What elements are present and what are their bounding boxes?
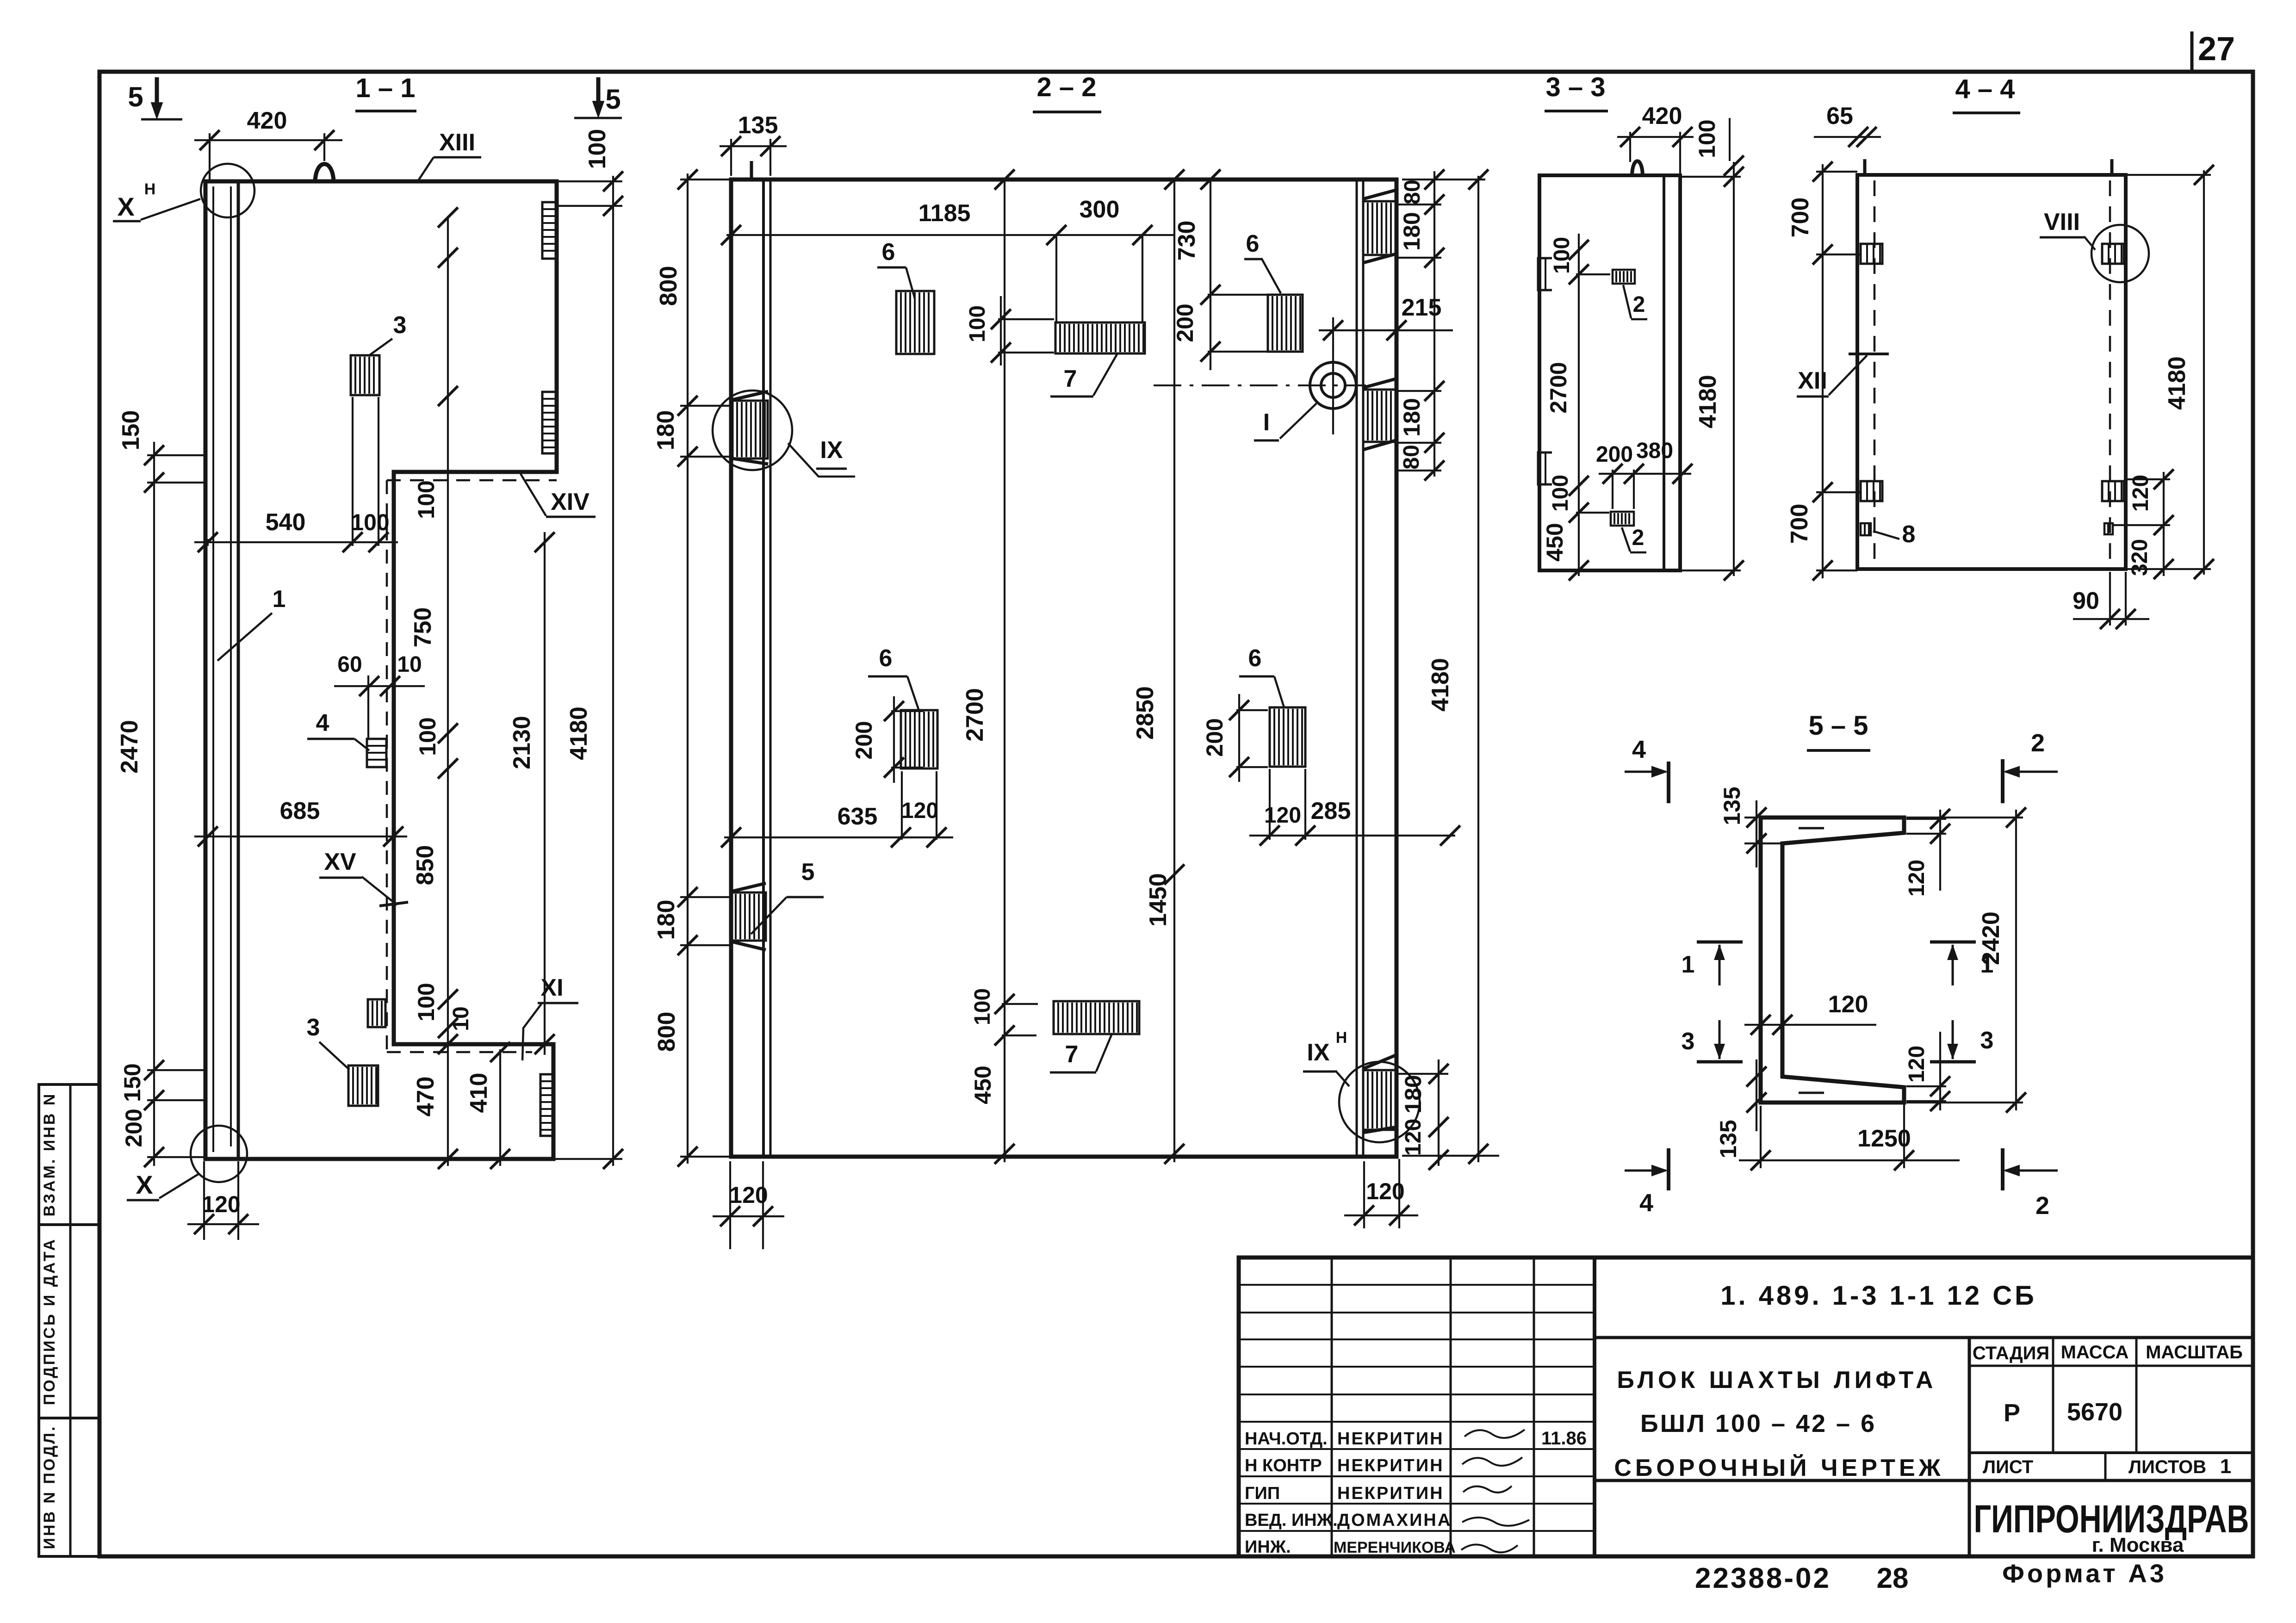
dim chain small right top 80 180 180 80 bbox=[1433, 171, 1435, 477]
dim 4180 right of 2-2 bbox=[1402, 179, 1485, 180]
svg-text:120: 120 bbox=[1828, 991, 1868, 1018]
svg-text:3 – 3: 3 – 3 bbox=[1546, 72, 1606, 102]
svg-text:IX: IX bbox=[820, 437, 843, 464]
svg-text:135: 135 bbox=[1715, 1120, 1741, 1158]
svg-text:100: 100 bbox=[351, 509, 389, 535]
svg-text:380: 380 bbox=[1636, 439, 1673, 463]
svg-text:100: 100 bbox=[965, 305, 990, 342]
svg-text:2700: 2700 bbox=[962, 688, 988, 742]
dim 4180 right 4-4 bbox=[2126, 174, 2211, 176]
svg-text:120: 120 bbox=[1366, 1178, 1404, 1204]
svg-text:Н: Н bbox=[1336, 1029, 1347, 1047]
svg-text:135: 135 bbox=[738, 112, 778, 139]
embedded plate small near step bbox=[368, 999, 385, 1027]
dim 200 and 380 3-3 bbox=[1599, 473, 1691, 475]
svg-text:4180: 4180 bbox=[1694, 375, 1721, 428]
svg-text:ДОМАХИНА: ДОМАХИНА bbox=[1337, 1511, 1452, 1530]
dim line 2850 1450 bbox=[1173, 180, 1175, 1162]
svg-text:800: 800 bbox=[653, 1012, 680, 1052]
dim 4180 right of 1-1 bbox=[557, 180, 622, 182]
svg-text:НЕКРИТИН: НЕКРИТИН bbox=[1337, 1484, 1444, 1503]
svg-text:4: 4 bbox=[1632, 736, 1646, 763]
svg-text:МАСШТАБ: МАСШТАБ bbox=[2146, 1342, 2243, 1363]
svg-text:4180: 4180 bbox=[1427, 658, 1454, 712]
embedded plate right edge above step XIV bbox=[542, 392, 557, 453]
dim 90 bottom 4-4 bbox=[2109, 572, 2111, 626]
svg-text:80: 80 bbox=[1399, 445, 1424, 469]
dim 65 top 4-4 bbox=[1814, 136, 1881, 138]
detail circle IX-N bbox=[1339, 1062, 1420, 1142]
svg-text:7: 7 bbox=[1065, 1041, 1079, 1068]
svg-text:1 – 1: 1 – 1 bbox=[356, 73, 416, 103]
dim 135 top left 5-5 bbox=[1756, 800, 1757, 867]
embedded plate 3 upper bbox=[351, 355, 379, 395]
svg-text:2: 2 bbox=[1632, 526, 1644, 550]
dim chain 730 200 bbox=[1210, 180, 1211, 370]
svg-text:180: 180 bbox=[653, 900, 680, 940]
svg-text:200: 200 bbox=[121, 1109, 147, 1147]
svg-text:27: 27 bbox=[2198, 31, 2235, 68]
svg-text:ГИП: ГИП bbox=[1245, 1484, 1280, 1503]
svg-text:ВЕД. ИНЖ.: ВЕД. ИНЖ. bbox=[1245, 1511, 1338, 1530]
rebar line right bbox=[230, 186, 232, 1146]
svg-text:120: 120 bbox=[2128, 475, 2153, 512]
dim 120 bottom left strip bbox=[729, 1161, 731, 1249]
embedded plate 3 lower bbox=[348, 1065, 378, 1106]
svg-text:6: 6 bbox=[1246, 230, 1260, 257]
svg-text:180: 180 bbox=[652, 410, 679, 451]
dim line 2700 100 450 bbox=[1004, 180, 1005, 1162]
svg-text:1450: 1450 bbox=[1145, 873, 1172, 927]
svg-text:685: 685 bbox=[280, 798, 320, 824]
embedded plate 4 bbox=[367, 739, 386, 767]
svg-text:1: 1 bbox=[1682, 951, 1695, 978]
svg-text:850: 850 bbox=[412, 845, 439, 886]
section 5-5 channel outline bbox=[1761, 818, 1904, 1103]
svg-text:750: 750 bbox=[410, 607, 436, 648]
svg-text:150: 150 bbox=[119, 1063, 145, 1102]
flange inner marks bbox=[1799, 827, 1824, 830]
hidden edge dashed bottom bbox=[387, 1051, 532, 1053]
hidden edge dashed vertical bbox=[386, 480, 388, 1052]
svg-text:700: 700 bbox=[1787, 198, 1814, 238]
svg-text:5: 5 bbox=[801, 859, 815, 886]
svg-text:ЛИСТ: ЛИСТ bbox=[1983, 1457, 2033, 1477]
dim 135 top left bbox=[730, 139, 732, 176]
svg-text:120: 120 bbox=[1905, 1046, 1929, 1083]
svg-text:700: 700 bbox=[1786, 504, 1813, 544]
dim chain left of 2-2 bbox=[687, 173, 689, 1164]
detail circle VIII bbox=[2091, 225, 2149, 282]
datum target circle I bbox=[1310, 362, 1356, 409]
svg-text:120: 120 bbox=[1264, 803, 1301, 828]
svg-text:1. 489. 1-3 1-1 12 СБ: 1. 489. 1-3 1-1 12 СБ bbox=[1720, 1281, 2037, 1311]
svg-text:ПОДПИСЬ И ДАТА: ПОДПИСЬ И ДАТА bbox=[41, 1238, 58, 1405]
svg-text:4: 4 bbox=[1639, 1189, 1653, 1217]
plate left top 4-4 bbox=[1861, 244, 1882, 264]
svg-text:22388-02: 22388-02 bbox=[1695, 1562, 1831, 1594]
hidden lines 4-4 bbox=[1874, 180, 1876, 565]
svg-text:120: 120 bbox=[1401, 1119, 1426, 1156]
svg-text:VIII: VIII bbox=[2044, 209, 2080, 235]
inner face line 3-3 bbox=[1663, 175, 1665, 570]
svg-text:Р: Р bbox=[2004, 1399, 2020, 1427]
dim 120 320 right 4-4 bbox=[2163, 472, 2165, 576]
page number 27 bbox=[2191, 31, 2194, 71]
title block left table row lines bbox=[1239, 1284, 1595, 1286]
svg-text:180: 180 bbox=[1400, 1075, 1426, 1113]
svg-text:НЕКРИТИН: НЕКРИТИН bbox=[1337, 1456, 1444, 1475]
svg-text:1250: 1250 bbox=[1857, 1125, 1911, 1152]
svg-text:4 – 4: 4 – 4 bbox=[1955, 74, 2015, 104]
svg-text:X: X bbox=[136, 1170, 153, 1199]
svg-text:730: 730 bbox=[1173, 221, 1200, 261]
svg-text:200: 200 bbox=[1172, 304, 1198, 342]
plate 8 left 4-4 bbox=[1861, 523, 1871, 535]
svg-text:XV: XV bbox=[324, 849, 356, 875]
svg-text:ИНЖ.: ИНЖ. bbox=[1245, 1537, 1291, 1557]
section 1-1 panel outline bbox=[205, 181, 557, 1159]
svg-text:5: 5 bbox=[605, 84, 621, 115]
dim 420 top bbox=[209, 133, 211, 180]
title block main horizontal lines bbox=[1595, 1336, 2253, 1339]
svg-text:100: 100 bbox=[413, 480, 439, 519]
svg-text:г. Москва: г. Москва bbox=[2092, 1534, 2184, 1556]
embedded plate 6b bbox=[1268, 295, 1303, 352]
svg-text:410: 410 bbox=[465, 1073, 492, 1113]
svg-text:215: 215 bbox=[1402, 294, 1442, 321]
embedded plate 7b bbox=[1054, 1001, 1139, 1034]
detail circle IX bbox=[713, 390, 792, 470]
dim 4180 right 3-3 bbox=[1680, 176, 1741, 178]
dim 410 line bbox=[499, 1049, 501, 1166]
left strip inner lines bbox=[762, 180, 765, 1157]
embedded plate top of right strip bbox=[1363, 201, 1396, 255]
svg-text:540: 540 bbox=[266, 509, 306, 536]
svg-text:60: 60 bbox=[337, 652, 362, 677]
svg-text:200: 200 bbox=[1596, 442, 1633, 467]
svg-text:100: 100 bbox=[1550, 237, 1574, 274]
dim 120 web 5-5 bbox=[1744, 1024, 1876, 1026]
svg-text:6: 6 bbox=[879, 645, 893, 672]
svg-text:СТАДИЯ: СТАДИЯ bbox=[1973, 1343, 2049, 1363]
lifting hook 3-3 bbox=[1632, 161, 1643, 175]
section 2-2 outline bbox=[731, 180, 1396, 1157]
title block outer border bbox=[1239, 1258, 2253, 1556]
svg-text:МЕРЕНЧИКОВА: МЕРЕНЧИКОВА bbox=[1334, 1539, 1456, 1556]
section 4-4 outline bbox=[1857, 175, 2126, 569]
dim 180 120 at IX-N bbox=[1438, 1059, 1440, 1166]
dim 540 and 100 bbox=[207, 539, 209, 546]
svg-text:320: 320 bbox=[2128, 539, 2152, 576]
svg-text:2130: 2130 bbox=[509, 716, 535, 769]
dim 200 near 6c bbox=[893, 696, 895, 783]
svg-text:6: 6 bbox=[882, 239, 895, 266]
svg-text:80: 80 bbox=[1400, 180, 1425, 204]
svg-text:Н: Н bbox=[144, 180, 156, 198]
plate right top 4-4 in circle VIII bbox=[2102, 244, 2124, 264]
svg-text:Формат А3: Формат А3 bbox=[2002, 1559, 2167, 1588]
svg-text:100: 100 bbox=[1694, 119, 1720, 158]
svg-text:100: 100 bbox=[970, 988, 995, 1025]
margin box PODPIS I DATA bbox=[39, 1225, 99, 1418]
svg-text:Н КОНТР: Н КОНТР bbox=[1245, 1456, 1322, 1475]
section 3-3 outline bbox=[1539, 175, 1680, 570]
dim 120 top right 5-5 bbox=[1939, 810, 1941, 891]
dim 2420 right 5-5 bbox=[1906, 817, 2023, 818]
svg-text:1185: 1185 bbox=[918, 200, 971, 227]
svg-text:ЛИСТОВ: ЛИСТОВ bbox=[2128, 1457, 2206, 1477]
svg-text:100: 100 bbox=[415, 717, 441, 756]
plate left mid 4-4 bbox=[1861, 481, 1882, 501]
svg-text:4180: 4180 bbox=[565, 706, 592, 760]
svg-text:200: 200 bbox=[851, 721, 877, 759]
dim 635 and 120 bbox=[901, 771, 903, 840]
margin box INV N PODL bbox=[39, 1418, 99, 1556]
svg-text:3: 3 bbox=[307, 1014, 320, 1041]
signature squiggles bbox=[1464, 1430, 1525, 1438]
dim 120 bottom right strip bbox=[1363, 1161, 1365, 1228]
dim 215 bbox=[1319, 329, 1453, 331]
svg-text:135: 135 bbox=[1719, 787, 1745, 825]
svg-text:1: 1 bbox=[2220, 1455, 2231, 1478]
embedded plate 6a bbox=[896, 291, 934, 354]
dim chain left 3-3 bbox=[1578, 234, 1580, 576]
plate 2 lower bbox=[1611, 512, 1634, 526]
svg-text:180: 180 bbox=[1399, 398, 1425, 436]
svg-text:420: 420 bbox=[247, 107, 287, 134]
svg-text:2420: 2420 bbox=[1978, 911, 2004, 965]
svg-text:2: 2 bbox=[2031, 729, 2045, 757]
svg-text:X: X bbox=[117, 192, 134, 221]
svg-text:БШЛ 100 – 42 – 6: БШЛ 100 – 42 – 6 bbox=[1640, 1410, 1876, 1437]
dim chain left 4-4 700 700 bbox=[1822, 164, 1824, 578]
embedded plate IX-N bottom right strip bbox=[1363, 1070, 1396, 1130]
svg-text:800: 800 bbox=[655, 266, 682, 306]
svg-text:XIV: XIV bbox=[551, 489, 590, 515]
svg-text:120: 120 bbox=[1905, 860, 1929, 897]
lifting hook bbox=[315, 164, 334, 182]
svg-text:5 – 5: 5 – 5 bbox=[1809, 711, 1868, 741]
svg-text:2850: 2850 bbox=[1132, 686, 1159, 740]
svg-text:100: 100 bbox=[1548, 475, 1573, 512]
dim 200 near 6d bbox=[1238, 694, 1240, 782]
svg-text:10: 10 bbox=[397, 652, 422, 677]
svg-text:5670: 5670 bbox=[2067, 1398, 2122, 1426]
section 1-1 inner face line bbox=[237, 181, 240, 1159]
bracket bottom left edge bbox=[1538, 452, 1552, 484]
svg-text:3: 3 bbox=[1980, 1027, 1994, 1054]
svg-text:100: 100 bbox=[584, 129, 611, 169]
embedded plate 6c bbox=[901, 710, 937, 768]
plate right small 4-4 bbox=[2104, 523, 2113, 534]
svg-text:МАССА: МАССА bbox=[2061, 1342, 2129, 1363]
dim 100 near 7a bbox=[1000, 296, 1002, 365]
svg-text:180: 180 bbox=[1399, 212, 1425, 250]
plate right mid 4-4 bbox=[2102, 481, 2124, 501]
svg-text:СБОРОЧНЫЙ ЧЕРТЕЖ: СБОРОЧНЫЙ ЧЕРТЕЖ bbox=[1614, 1454, 1944, 1481]
svg-text:4180: 4180 bbox=[2164, 356, 2191, 410]
svg-text:XIII: XIII bbox=[439, 129, 475, 156]
right strip inner lines bbox=[1356, 180, 1358, 1157]
dim 120 bottom of 1-1 bbox=[203, 1161, 205, 1240]
svg-text:120: 120 bbox=[901, 799, 938, 823]
svg-text:I: I bbox=[1263, 409, 1270, 436]
svg-text:НЕКРИТИН: НЕКРИТИН bbox=[1337, 1429, 1444, 1449]
svg-text:2: 2 bbox=[2035, 1192, 2049, 1220]
svg-text:3: 3 bbox=[393, 312, 407, 339]
dim 1250 bottom 5-5 bbox=[1760, 1106, 1762, 1168]
svg-text:БЛОК ШАХТЫ ЛИФТА: БЛОК ШАХТЫ ЛИФТА bbox=[1617, 1367, 1936, 1394]
dim 1185 and 300 bbox=[1055, 235, 1057, 322]
rebar line left bbox=[212, 186, 214, 1152]
embedded plate top right edge bbox=[542, 202, 557, 259]
svg-text:5: 5 bbox=[128, 81, 143, 112]
svg-text:2700: 2700 bbox=[1545, 362, 1571, 413]
hook pins 4-4 bbox=[1863, 159, 1867, 175]
svg-text:450: 450 bbox=[1542, 523, 1568, 561]
embedded plate XI bottom right bbox=[540, 1074, 552, 1136]
bracket top left edge bbox=[1538, 258, 1552, 290]
dim 120 and 285 near 6d bbox=[1269, 769, 1271, 840]
margin box VZAM INV N bbox=[39, 1084, 99, 1225]
dim chain left of 1-1 line bbox=[153, 442, 155, 1166]
svg-text:120: 120 bbox=[729, 1182, 768, 1208]
svg-text:1: 1 bbox=[273, 586, 286, 613]
title block left table column lines bbox=[1331, 1258, 1333, 1556]
svg-text:6: 6 bbox=[1248, 645, 1262, 672]
svg-text:90: 90 bbox=[2073, 588, 2099, 614]
dim 120 bottom right 5-5 bbox=[1939, 1032, 1941, 1110]
title block main vertical lines bbox=[1968, 1338, 1971, 1556]
svg-text:8: 8 bbox=[1902, 521, 1916, 548]
svg-text:7: 7 bbox=[1064, 365, 1077, 392]
svg-text:2470: 2470 bbox=[116, 720, 143, 774]
dim 2130 line bbox=[544, 532, 546, 1055]
svg-text:100: 100 bbox=[413, 983, 439, 1021]
svg-text:120: 120 bbox=[202, 1191, 240, 1217]
embedded plate 6d bbox=[1270, 707, 1305, 767]
dim 60 and 10 bbox=[334, 685, 425, 687]
svg-text:65: 65 bbox=[1826, 103, 1853, 130]
svg-text:450: 450 bbox=[970, 1065, 996, 1104]
dim chain middle 1-1 bbox=[447, 217, 449, 1166]
left strip hook pin bbox=[750, 161, 753, 180]
svg-text:4: 4 bbox=[316, 710, 329, 737]
embedded plate 5 in left strip bbox=[731, 892, 766, 941]
svg-text:300: 300 bbox=[1080, 196, 1120, 223]
svg-text:28: 28 bbox=[1877, 1562, 1909, 1594]
svg-text:150: 150 bbox=[118, 410, 144, 451]
svg-text:11.86: 11.86 bbox=[1541, 1428, 1587, 1449]
svg-text:635: 635 bbox=[838, 803, 878, 830]
svg-text:НАЧ.ОТД.: НАЧ.ОТД. bbox=[1245, 1429, 1328, 1449]
svg-text:ВЗАМ. ИНВ N: ВЗАМ. ИНВ N bbox=[41, 1092, 58, 1217]
svg-text:200: 200 bbox=[1202, 718, 1228, 756]
plate 2 upper bbox=[1613, 270, 1635, 284]
svg-text:470: 470 bbox=[412, 1077, 439, 1117]
embedded plate mid of right strip bbox=[1363, 390, 1396, 442]
svg-text:2: 2 bbox=[1633, 292, 1645, 317]
svg-text:3: 3 bbox=[1682, 1028, 1695, 1055]
dim 420 top 3-3 bbox=[1629, 132, 1631, 162]
svg-text:ИНВ N ПОДЛ.: ИНВ N ПОДЛ. bbox=[41, 1425, 58, 1549]
dim 135 bottom left 5-5 bbox=[1756, 1059, 1757, 1131]
dim 685 bbox=[194, 836, 407, 837]
embedded plate IX in left strip bbox=[732, 401, 768, 458]
svg-text:IX: IX bbox=[1307, 1039, 1329, 1066]
svg-text:2 – 2: 2 – 2 bbox=[1037, 72, 1097, 102]
hidden edge dashed top bbox=[387, 479, 557, 482]
svg-text:10: 10 bbox=[449, 1006, 473, 1031]
svg-text:420: 420 bbox=[1642, 103, 1682, 130]
embedded plate 7a bbox=[1055, 322, 1145, 353]
svg-text:285: 285 bbox=[1311, 798, 1351, 824]
